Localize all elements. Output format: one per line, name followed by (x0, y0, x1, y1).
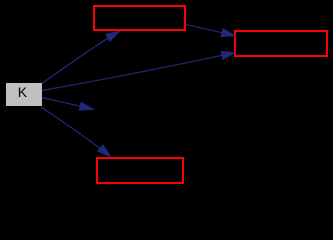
wire edge K to right box (42, 53, 235, 91)
node K label (18, 85, 27, 99)
wire edge K to bottom box (42, 107, 111, 157)
node box top (94, 6, 185, 30)
node K (6, 83, 42, 106)
node box bottom (97, 158, 183, 183)
wire edge top box to right box (186, 25, 235, 36)
node box right (235, 31, 327, 56)
wire edge K to hidden node (42, 98, 94, 110)
wire edge K to top box (42, 31, 120, 83)
